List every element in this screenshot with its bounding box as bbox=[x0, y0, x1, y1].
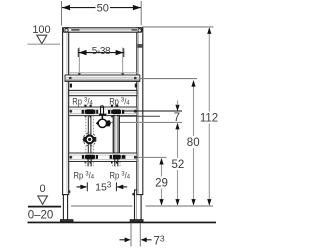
upper mounting rail bbox=[65, 73, 140, 82]
upper crossrail bbox=[69, 107, 137, 116]
svg-text:0: 0 bbox=[40, 183, 46, 195]
fitting lower-left bbox=[82, 155, 98, 164]
dimension 15-3 bbox=[77, 181, 128, 194]
datum 100 top-left bbox=[28, 24, 61, 44]
fitting lower-right bbox=[110, 155, 126, 164]
right foot bbox=[130, 220, 143, 223]
zero line baseline bbox=[71, 205, 133, 207]
dimension 5-38 bbox=[78, 46, 125, 76]
dimension 112 bbox=[200, 27, 218, 205]
svg-text:50: 50 bbox=[97, 2, 109, 14]
leader top right (112 extension) bbox=[142, 26, 213, 28]
fitting upper-right bbox=[108, 105, 124, 118]
svg-text:29: 29 bbox=[155, 177, 168, 189]
left foot bbox=[60, 220, 73, 223]
datum 0 bottom-left bbox=[28, 183, 61, 221]
dimension 50 top bbox=[62, 1, 142, 25]
dimension 52 bbox=[172, 123, 185, 206]
hanger eyebolt bbox=[101, 106, 104, 115]
pipe clamp bbox=[96, 114, 111, 128]
frame right upright bbox=[137, 28, 143, 195]
frame top bar bbox=[63, 28, 142, 32]
frame left upright bbox=[63, 28, 69, 195]
leader lower fitting right bbox=[125, 156, 166, 158]
bracket nub right bbox=[135, 84, 137, 88]
leader pipe right bbox=[120, 115, 160, 117]
secondary rail band bbox=[69, 90, 137, 95]
svg-text:52: 52 bbox=[172, 159, 185, 171]
dimension 80 bbox=[187, 80, 200, 206]
water meter bbox=[83, 133, 96, 146]
right leg bbox=[132, 190, 141, 220]
svg-text:7: 7 bbox=[174, 112, 180, 124]
leader rail to 80 bbox=[140, 78, 197, 80]
dimension 7 vertical right bbox=[174, 101, 180, 125]
fitting upper-left bbox=[82, 105, 99, 118]
floor line bbox=[28, 222, 217, 224]
right pipe bbox=[113, 116, 119, 153]
stub below lower-left fitting bbox=[86, 159, 93, 167]
dimension 7-3 bottom bbox=[120, 223, 165, 247]
svg-text:5-38: 5-38 bbox=[92, 46, 111, 57]
leader clamp right bbox=[111, 121, 182, 123]
svg-text:80: 80 bbox=[187, 137, 200, 149]
stub below lower-right fitting bbox=[113, 159, 120, 167]
bracket nub left bbox=[70, 84, 72, 88]
lower crossrail bbox=[69, 153, 137, 162]
svg-text:100: 100 bbox=[32, 24, 50, 36]
dimension 29 bbox=[155, 158, 168, 206]
leader fitting right to 7-dim bbox=[124, 110, 182, 112]
left pipe bbox=[86, 116, 93, 153]
left leg bbox=[63, 190, 70, 220]
svg-text:112: 112 bbox=[200, 113, 218, 125]
svg-text:0–20: 0–20 bbox=[28, 209, 54, 221]
